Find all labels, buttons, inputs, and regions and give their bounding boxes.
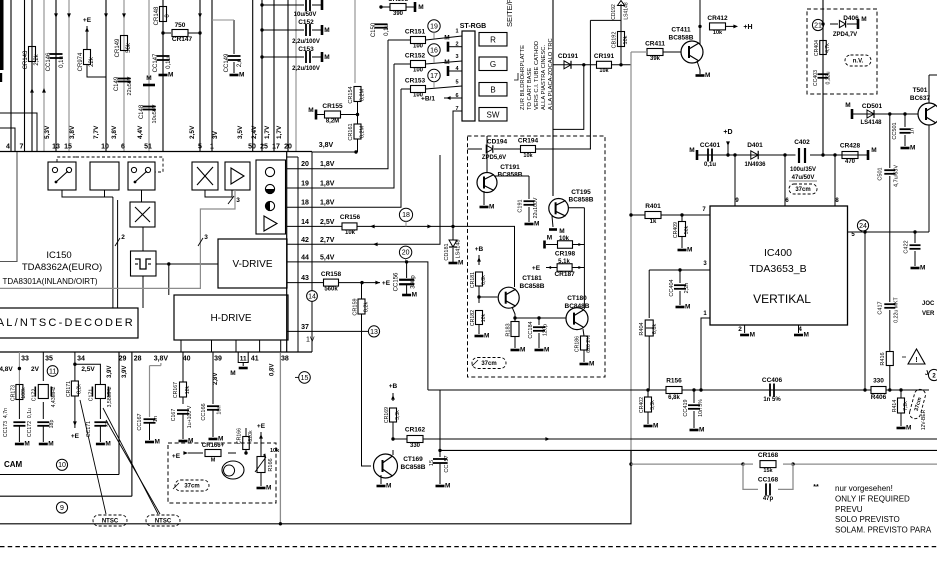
svg-text:8,2M: 8,2M: [326, 119, 339, 125]
svg-text:4,4V: 4,4V: [137, 125, 144, 139]
svg-text:NTSC: NTSC: [102, 519, 119, 525]
svg-text:10k: 10k: [559, 236, 570, 242]
svg-text:13: 13: [52, 144, 60, 151]
svg-text:1,7V: 1,7V: [276, 125, 283, 139]
svg-text:CD192: CD192: [611, 4, 617, 20]
svg-text:CR173: CR173: [10, 385, 16, 401]
svg-text:6,8k: 6,8k: [481, 275, 487, 285]
svg-text:C148: C148: [139, 104, 145, 119]
svg-text:R404: R404: [639, 322, 645, 335]
svg-text:CC156: CC156: [394, 272, 400, 291]
svg-text:3: 3: [204, 234, 208, 241]
svg-text:M: M: [146, 75, 151, 82]
svg-text:SOLAM. PREVISTO PARA: SOLAM. PREVISTO PARA: [835, 526, 932, 535]
svg-text:M: M: [418, 4, 423, 11]
svg-text:M: M: [920, 265, 925, 272]
svg-text:BC848B: BC848B: [565, 303, 590, 310]
svg-text:4,7n: 4,7n: [3, 408, 9, 418]
svg-text:PREVU: PREVU: [835, 505, 863, 514]
svg-text:C167: C167: [171, 409, 177, 422]
svg-text:M: M: [699, 427, 704, 434]
svg-text:10u50V: 10u50V: [152, 104, 158, 123]
svg-text:M: M: [489, 204, 494, 211]
svg-text:10k: 10k: [523, 153, 533, 159]
svg-text:CC147: CC147: [153, 53, 159, 72]
svg-text:ONLY IF REQUIRED: ONLY IF REQUIRED: [835, 494, 910, 503]
svg-text:10n 5%: 10n 5%: [698, 399, 704, 417]
svg-text:CC184: CC184: [528, 321, 534, 338]
svg-text:1V: 1V: [306, 337, 315, 344]
svg-text:R406: R406: [871, 394, 887, 401]
svg-text:3: 3: [455, 54, 458, 60]
svg-text:2,5V: 2,5V: [81, 366, 95, 373]
svg-text:TDA3653_B: TDA3653_B: [749, 263, 806, 275]
svg-text:SOLO PREVISTO: SOLO PREVISTO: [835, 515, 900, 524]
svg-text:390: 390: [393, 11, 404, 17]
svg-text:M: M: [906, 425, 911, 432]
svg-text:3,58MHz: 3,58MHz: [107, 386, 113, 407]
svg-text:22u50V: 22u50V: [127, 76, 133, 95]
svg-text:10: 10: [58, 462, 66, 469]
svg-text:M: M: [458, 260, 463, 267]
svg-text:120p: 120p: [543, 324, 549, 336]
svg-text:15k: 15k: [763, 468, 773, 474]
svg-text:5,1k: 5,1k: [558, 259, 570, 265]
svg-text:VERTIKAL: VERTIKAL: [753, 292, 811, 306]
svg-text:C402: C402: [794, 139, 810, 146]
svg-text:H-DRIVE: H-DRIVE: [210, 313, 251, 324]
svg-text:M: M: [211, 458, 216, 464]
svg-text:CD181: CD181: [444, 243, 450, 260]
svg-text:8,2M: 8,2M: [360, 88, 366, 101]
svg-text:22u100V: 22u100V: [533, 197, 539, 218]
svg-text:47p: 47p: [763, 496, 774, 502]
svg-text:JOC: JOC: [922, 301, 935, 307]
svg-text:37cm: 37cm: [184, 484, 199, 490]
svg-text:5: 5: [455, 80, 458, 86]
svg-text:LS4148: LS4148: [860, 120, 882, 126]
svg-text:CD191: CD191: [558, 53, 579, 60]
svg-text:0,22u: 0,22u: [826, 71, 832, 84]
svg-text:2,8V: 2,8V: [213, 373, 219, 385]
svg-text:TDA8301A(INLAND/OIRT): TDA8301A(INLAND/OIRT): [3, 277, 98, 286]
svg-text:M: M: [444, 35, 449, 42]
svg-text:15: 15: [429, 460, 435, 466]
svg-text:CR404: CR404: [814, 40, 820, 56]
svg-text:CR166+: CR166+: [202, 443, 225, 449]
svg-text:CC401: CC401: [700, 142, 721, 149]
svg-text:CB192: CB192: [612, 32, 618, 49]
svg-text:+E: +E: [382, 280, 391, 287]
svg-text:CR182: CR182: [470, 310, 476, 326]
svg-text:CR108: CR108: [388, 0, 409, 3]
svg-text:100k: 100k: [21, 387, 27, 399]
svg-text:1N4936: 1N4936: [744, 162, 766, 168]
svg-text:28: 28: [134, 356, 142, 363]
svg-text:9: 9: [60, 505, 64, 512]
svg-text:+B: +B: [475, 246, 484, 253]
svg-text:7,7V: 7,7V: [93, 125, 100, 139]
svg-text:+E: +E: [532, 265, 541, 272]
svg-text:3V: 3V: [212, 130, 219, 139]
svg-text:21: 21: [814, 22, 822, 29]
svg-text:CC167: CC167: [137, 413, 143, 430]
svg-text:M: M: [803, 332, 808, 339]
svg-text:51: 51: [144, 144, 152, 151]
svg-text:0,8V: 0,8V: [270, 364, 276, 376]
svg-text:2,7V: 2,7V: [320, 237, 335, 244]
svg-text:56k: 56k: [126, 42, 132, 53]
svg-text:40: 40: [183, 356, 191, 363]
svg-text:+H: +H: [743, 24, 752, 31]
svg-text:8,2k: 8,2k: [77, 384, 83, 394]
svg-text:CC404: CC404: [669, 279, 675, 296]
svg-text:1,7V: 1,7V: [264, 125, 271, 139]
svg-text:1n 5%: 1n 5%: [763, 397, 781, 403]
svg-text:M: M: [105, 441, 110, 448]
svg-text:5,4V: 5,4V: [320, 254, 335, 261]
svg-text:M: M: [308, 107, 313, 114]
svg-text:3,8V: 3,8V: [319, 142, 334, 149]
svg-text:330: 330: [873, 378, 884, 385]
svg-text:2,5V: 2,5V: [320, 219, 335, 226]
svg-text:R166: R166: [268, 458, 274, 471]
svg-text:1k: 1k: [650, 219, 657, 225]
svg-text:CT411: CT411: [671, 27, 691, 34]
svg-text:M: M: [412, 292, 417, 299]
svg-text:+B/1: +B/1: [421, 96, 435, 103]
svg-text:18: 18: [402, 212, 410, 219]
svg-text:390p: 390p: [411, 275, 417, 289]
svg-text:R414: R414: [892, 400, 898, 413]
svg-text:LS4148: LS4148: [624, 2, 630, 19]
svg-text:42: 42: [301, 237, 309, 244]
svg-text:CC166: CC166: [201, 403, 207, 420]
svg-text:BC858B: BC858B: [569, 197, 594, 204]
svg-text:CR162: CR162: [405, 427, 426, 434]
svg-text:BC637: BC637: [910, 95, 931, 102]
svg-text:6: 6: [121, 144, 125, 151]
svg-text:IC150: IC150: [46, 250, 71, 261]
svg-text:CAM: CAM: [4, 460, 23, 469]
svg-text:M: M: [520, 347, 525, 354]
svg-text:CR153: CR153: [405, 78, 426, 85]
svg-text:43: 43: [301, 275, 309, 282]
svg-text:CR149: CR149: [115, 38, 121, 57]
svg-text:3,5V: 3,5V: [237, 125, 244, 139]
svg-text:BC858B: BC858B: [520, 283, 545, 290]
svg-text:+E: +E: [83, 17, 92, 24]
svg-text:CR151: CR151: [405, 29, 426, 36]
svg-text:34: 34: [77, 356, 85, 363]
svg-text:29: 29: [119, 356, 127, 363]
svg-text:39k: 39k: [650, 56, 661, 62]
svg-text:C172: C172: [32, 389, 38, 402]
svg-text:1,8V: 1,8V: [320, 181, 335, 188]
svg-text:M: M: [230, 370, 235, 377]
svg-text:3,3k: 3,3k: [395, 410, 401, 420]
svg-text:nur vorgesehen!: nur vorgesehen!: [835, 484, 893, 493]
svg-text:25: 25: [260, 144, 268, 151]
svg-text:CD194: CD194: [487, 139, 508, 146]
svg-text:5: 5: [198, 144, 202, 151]
svg-text:10k: 10k: [270, 448, 280, 454]
svg-text:11: 11: [49, 368, 56, 375]
svg-text:0,1u: 0,1u: [59, 56, 65, 68]
svg-text:R: R: [490, 35, 496, 44]
svg-text:4: 4: [6, 144, 10, 151]
svg-text:1n: 1n: [910, 128, 916, 134]
svg-text:C417: C417: [878, 301, 884, 314]
svg-text:4,7k: 4,7k: [825, 43, 831, 53]
svg-text:M: M: [845, 102, 850, 109]
svg-text:2,5V: 2,5V: [189, 125, 196, 139]
svg-text:M: M: [484, 333, 489, 340]
svg-text:2,2u/100V: 2,2u/100V: [292, 39, 320, 45]
svg-text:100u/35V: 100u/35V: [790, 167, 816, 173]
svg-text:C422: C422: [904, 240, 910, 253]
svg-text:M: M: [386, 483, 391, 490]
svg-text:19: 19: [430, 23, 438, 30]
svg-text:M: M: [705, 72, 710, 79]
svg-text:2,4V: 2,4V: [251, 125, 258, 139]
svg-text:3,8V: 3,8V: [69, 125, 76, 139]
svg-text:2: 2: [738, 326, 742, 333]
svg-text:CC157: CC157: [444, 455, 450, 472]
svg-text:18p: 18p: [49, 420, 55, 429]
svg-text:14: 14: [301, 219, 309, 226]
svg-text:750: 750: [175, 22, 186, 29]
svg-text:M: M: [685, 304, 690, 311]
svg-text:CR168: CR168: [758, 452, 779, 459]
svg-text:CC406: CC406: [762, 377, 783, 384]
svg-text:2,2u/100V: 2,2u/100V: [292, 66, 320, 72]
svg-text:M: M: [24, 441, 29, 448]
svg-text:D401: D401: [747, 142, 763, 149]
svg-text:CR158: CR158: [321, 271, 342, 278]
svg-text:C191: C191: [518, 199, 524, 212]
svg-text:C153: C153: [298, 46, 314, 53]
svg-text:39: 39: [214, 356, 222, 363]
svg-text:CT181: CT181: [522, 275, 542, 282]
svg-text:LS4148: LS4148: [456, 240, 462, 259]
svg-text:2,n: 2,n: [237, 59, 243, 67]
svg-text:CR147: CR147: [172, 36, 193, 43]
svg-text:470: 470: [845, 159, 856, 165]
svg-text:1,8V: 1,8V: [320, 200, 335, 207]
svg-text:38: 38: [281, 356, 289, 363]
svg-text:15: 15: [64, 144, 72, 151]
svg-text:0,1u: 0,1u: [166, 57, 172, 69]
svg-text:CR411: CR411: [645, 41, 665, 48]
svg-text:56k: 56k: [684, 225, 690, 234]
svg-text:CC172: CC172: [27, 421, 33, 437]
svg-text:M: M: [239, 72, 244, 79]
svg-text:1,8V: 1,8V: [320, 161, 335, 168]
svg-text:44: 44: [301, 254, 309, 261]
svg-text:M: M: [653, 423, 658, 430]
svg-text:3,3k: 3,3k: [650, 400, 656, 410]
svg-text:CR154: CR154: [348, 86, 354, 103]
svg-text:**: **: [813, 484, 819, 491]
svg-text:M: M: [559, 228, 564, 235]
svg-text:TDA8362A(EURO): TDA8362A(EURO): [22, 262, 102, 273]
svg-text:CC168: CC168: [758, 477, 779, 484]
svg-text:820k: 820k: [248, 430, 254, 442]
svg-text:12V-BER: 12V-BER: [921, 409, 927, 430]
svg-text:M: M: [910, 145, 915, 152]
svg-text:37cm: 37cm: [481, 361, 496, 367]
svg-text:16: 16: [430, 47, 438, 54]
svg-text:CR148: CR148: [154, 6, 160, 25]
svg-text:BC858B: BC858B: [498, 172, 523, 179]
svg-text:CC173: CC173: [3, 421, 9, 437]
svg-text:1: 1: [210, 144, 214, 151]
svg-text:7,2k: 7,2k: [903, 401, 909, 411]
svg-text:CC146: CC146: [46, 52, 52, 71]
svg-text:M: M: [544, 347, 549, 354]
svg-text:7: 7: [20, 144, 24, 151]
svg-text:33: 33: [21, 356, 29, 363]
svg-text:100: 100: [413, 44, 424, 50]
svg-text:4,7u/63V: 4,7u/63V: [894, 165, 900, 187]
svg-text:3,8V: 3,8V: [111, 125, 118, 139]
svg-text:M: M: [218, 436, 223, 443]
svg-text:T501: T501: [913, 87, 928, 94]
svg-text:CR412: CR412: [707, 15, 728, 22]
svg-text:2,2n: 2,2n: [684, 283, 690, 294]
svg-text:3,9V: 3,9V: [107, 366, 113, 378]
svg-text:CT191: CT191: [500, 164, 520, 171]
svg-text:19: 19: [301, 181, 309, 188]
svg-text:20: 20: [301, 161, 309, 168]
svg-text:J: J: [925, 371, 928, 377]
svg-text:R156: R156: [666, 378, 682, 385]
svg-text:+B: +B: [389, 383, 398, 390]
svg-text:CR156: CR156: [340, 214, 361, 221]
svg-text:CR409: CR409: [673, 222, 679, 238]
svg-text:CR167: CR167: [173, 382, 179, 398]
svg-text:CR169: CR169: [384, 407, 390, 423]
svg-text:10k: 10k: [599, 68, 609, 74]
svg-text:CT180: CT180: [567, 295, 587, 302]
svg-text:M: M: [324, 54, 329, 61]
svg-text:CD501: CD501: [862, 103, 883, 110]
svg-text:M: M: [266, 485, 271, 492]
svg-text:C150: C150: [371, 22, 377, 37]
svg-text:3,8V: 3,8V: [154, 356, 169, 363]
svg-text:0,22u MKT: 0,22u MKT: [894, 296, 900, 322]
svg-text:560k: 560k: [324, 287, 338, 293]
svg-text:C152: C152: [298, 19, 314, 26]
svg-text:8,2M: 8,2M: [360, 125, 366, 138]
svg-text:CR159: CR159: [353, 298, 359, 315]
svg-text:37: 37: [301, 324, 309, 331]
svg-text:M: M: [444, 59, 449, 66]
svg-text:CT195: CT195: [571, 189, 591, 196]
svg-text:47u/50V: 47u/50V: [792, 175, 815, 181]
svg-text:18: 18: [301, 200, 309, 207]
svg-text:CC403: CC403: [813, 70, 819, 86]
svg-text:B: B: [490, 85, 495, 94]
svg-text:CR143: CR143: [23, 50, 29, 69]
svg-text:+E: +E: [257, 423, 266, 430]
svg-text:0,1u: 0,1u: [384, 24, 390, 36]
svg-text:20: 20: [284, 144, 292, 151]
svg-text:620 2%: 620 2%: [586, 335, 592, 353]
svg-text:CR974: CR974: [78, 52, 84, 71]
svg-text:CR402: CR402: [639, 397, 645, 413]
svg-text:37cm: 37cm: [795, 187, 810, 193]
svg-text:+E: +E: [71, 433, 80, 440]
svg-text:M: M: [750, 332, 755, 339]
svg-text:CR152: CR152: [405, 53, 426, 60]
svg-text:10n: 10n: [217, 405, 223, 414]
svg-text:CR171: CR171: [66, 381, 72, 397]
svg-text:G: G: [490, 60, 496, 69]
svg-text:35: 35: [45, 356, 53, 363]
svg-text:4,8V: 4,8V: [0, 366, 13, 373]
svg-text:1n: 1n: [153, 416, 159, 422]
svg-text:n.V.: n.V.: [853, 59, 864, 65]
svg-text:C149: C149: [114, 76, 120, 91]
svg-text:CR191: CR191: [594, 53, 615, 60]
svg-text:0,1u: 0,1u: [704, 162, 716, 168]
svg-text:M: M: [871, 147, 876, 154]
svg-text:CC419: CC419: [683, 399, 689, 416]
svg-text:CR194: CR194: [518, 138, 539, 145]
svg-text:3,9V: 3,9V: [122, 366, 128, 378]
svg-text:M: M: [48, 441, 53, 448]
svg-text:10k: 10k: [345, 230, 356, 236]
svg-text:24: 24: [859, 223, 867, 230]
svg-text:BC858B: BC858B: [401, 464, 426, 471]
svg-text:CR181: CR181: [470, 272, 476, 288]
svg-text:100: 100: [413, 68, 424, 74]
svg-text:1: 1: [455, 29, 458, 35]
svg-text:10u/50V: 10u/50V: [294, 12, 317, 18]
svg-text:M: M: [445, 483, 450, 490]
svg-text:CC501: CC501: [892, 122, 898, 139]
svg-text:13: 13: [370, 329, 378, 336]
svg-text:10: 10: [101, 144, 109, 151]
svg-text:SEITE/P: SEITE/P: [505, 0, 514, 27]
svg-text:M: M: [861, 16, 866, 23]
svg-text:0,1u: 0,1u: [27, 408, 33, 418]
svg-text:11: 11: [240, 356, 247, 363]
svg-text:M: M: [547, 235, 552, 242]
svg-text:CR187: CR187: [554, 271, 575, 278]
svg-text:18k: 18k: [185, 385, 191, 394]
svg-text:50: 50: [248, 144, 256, 151]
svg-text:22k: 22k: [89, 56, 95, 67]
svg-text:41: 41: [251, 356, 259, 363]
svg-text:C171: C171: [89, 389, 95, 402]
svg-text:2,2k: 2,2k: [34, 53, 40, 65]
svg-text:M: M: [589, 361, 594, 368]
svg-text:IC400: IC400: [764, 247, 792, 259]
svg-text:10k: 10k: [713, 30, 723, 36]
svg-text:R401: R401: [645, 203, 661, 210]
svg-text:R183: R183: [506, 323, 512, 336]
svg-text:CR161: CR161: [348, 123, 354, 140]
svg-text:330: 330: [410, 443, 421, 449]
svg-text:1u+100 V: 1u+100 V: [187, 405, 193, 428]
svg-text:CT169: CT169: [403, 456, 423, 463]
svg-text:6,8k: 6,8k: [668, 395, 680, 401]
svg-text:2V: 2V: [31, 366, 40, 373]
svg-text:M: M: [168, 72, 173, 79]
